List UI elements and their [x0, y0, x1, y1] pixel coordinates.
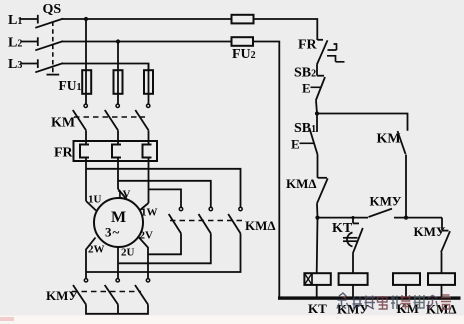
- wire: [317, 155, 319, 178]
- wire: [148, 130, 150, 144]
- pushbutton SB2 (stop, NC): [294, 66, 325, 101]
- node junction A: [315, 216, 319, 220]
- wire FR down C: [148, 158, 150, 204]
- svg-text:KM: KM: [51, 116, 75, 131]
- wire star point: [86, 305, 148, 314]
- wire KT to coil KM-star: [352, 253, 354, 273]
- wire: [117, 305, 119, 314]
- wire phase A down: [85, 19, 87, 104]
- svg-text:1U: 1U: [88, 194, 102, 206]
- svg-text:2W: 2W: [88, 244, 105, 256]
- svg-text:KM: KM: [377, 132, 401, 147]
- svg-text:L2: L2: [8, 36, 22, 51]
- svg-text:L3: L3: [8, 57, 22, 72]
- wire 2V to KM-delta contact 1 bottom: [148, 233, 181, 254]
- wire: [21, 18, 38, 20]
- svg-text:SB2: SB2: [294, 66, 316, 81]
- motor M: [94, 198, 143, 247]
- contactor KM-star contacts: [46, 279, 150, 305]
- motor terminal 2W lead: [86, 238, 96, 279]
- wire L1 to FU2: [62, 18, 232, 20]
- svg-text:FR: FR: [298, 38, 318, 53]
- fuse FU2 upper: [232, 15, 254, 24]
- svg-text:KMΔ: KMΔ: [286, 176, 317, 191]
- svg-text:KT: KT: [308, 301, 327, 316]
- svg-text:E: E: [302, 81, 311, 96]
- wire coil bottoms to rail: [316, 285, 318, 297]
- fuse FU1 pole B: [114, 70, 123, 94]
- svg-text:KMΔ: KMΔ: [245, 218, 276, 233]
- wire bottom rail: [278, 296, 461, 299]
- wire FR down A: [85, 158, 87, 202]
- fuse FU2 lower: [232, 37, 254, 46]
- wire: [316, 114, 318, 133]
- wire: [441, 252, 443, 273]
- disconnect switch QS: [35, 2, 63, 75]
- svg-text:KMΔ: KMΔ: [426, 302, 457, 317]
- wire: [117, 130, 119, 144]
- svg-text:E: E: [291, 137, 300, 152]
- motor terminal 2V lead: [139, 237, 149, 278]
- coil KM-delta: [428, 273, 455, 285]
- wire: [441, 285, 443, 297]
- pushbutton SB1 (start, NO): [291, 121, 318, 155]
- wire row: [318, 217, 369, 219]
- node junction L1/FU1: [84, 17, 88, 21]
- contact KM (NO self-hold): [377, 131, 406, 154]
- wire 1W to KM-delta contact 1: [149, 189, 182, 207]
- svg-text:1W: 1W: [141, 207, 158, 219]
- contact KM-star (NO, horizontal): [369, 194, 402, 218]
- motor terminal 2U lead: [117, 247, 119, 278]
- wire row: [394, 217, 442, 219]
- svg-text:3~: 3~: [105, 225, 120, 240]
- watermark logo: [337, 293, 349, 309]
- fuse FU1 pole A: [82, 70, 91, 94]
- svg-text:L1: L1: [8, 13, 22, 28]
- node junction B: [404, 216, 408, 220]
- wire L1 fuse to control rail: [254, 19, 318, 40]
- coil KM: [393, 273, 420, 285]
- node junction L2/FU1: [116, 39, 120, 43]
- svg-text:FU2: FU2: [232, 47, 256, 62]
- coil KT: [304, 273, 330, 285]
- motor terminal 1W lead: [140, 203, 149, 211]
- fuse FU1 pole C: [144, 70, 153, 94]
- wire: [316, 65, 318, 76]
- svg-text:1V: 1V: [117, 189, 131, 201]
- svg-text:KMУ: KMУ: [370, 194, 402, 209]
- thermal relay FR: [54, 141, 157, 161]
- svg-text:FR: FR: [54, 146, 74, 161]
- svg-text:SB1: SB1: [294, 121, 316, 136]
- watermark text: [353, 295, 452, 310]
- contact KM-star (NC interlock): [414, 218, 451, 253]
- wire phase B down: [117, 42, 119, 105]
- wire L2 to FU2: [62, 41, 232, 43]
- wire: [21, 63, 38, 65]
- time relay contact KT (delayed): [332, 216, 363, 253]
- contact KM-delta (NC interlock): [286, 176, 328, 204]
- contactor KM main contacts: [51, 104, 150, 130]
- contactor KM-delta contacts: [169, 207, 276, 233]
- svg-text:QS: QS: [43, 2, 62, 17]
- wire FR down B: [117, 158, 119, 190]
- wire 2U to KM-delta contact 2 bottom: [118, 233, 211, 263]
- svg-text:2U: 2U: [121, 247, 135, 259]
- wire: [352, 285, 354, 297]
- wire: [316, 101, 317, 114]
- wire: [21, 41, 38, 43]
- wire KM to FR: [85, 130, 87, 144]
- wire: [405, 285, 407, 297]
- wire KT coil feed: [316, 218, 319, 274]
- wire 1U to KM-delta contact 3: [86, 169, 241, 208]
- wire 1V to KM-delta contact 2: [118, 181, 211, 208]
- motor terminal 1U lead: [86, 201, 96, 211]
- wire to KM branch: [317, 114, 408, 131]
- wire: [405, 155, 407, 218]
- wire L2 fuse to left rail: [253, 42, 279, 298]
- wire phase C down: [148, 64, 150, 105]
- motor terminal 1V lead: [118, 189, 127, 199]
- thermal contact FR (NC): [298, 38, 345, 65]
- coil KM-star: [339, 273, 368, 285]
- svg-text:KMУ: KMУ: [46, 288, 78, 303]
- svg-text:KMУ: KMУ: [414, 224, 446, 239]
- wire: [316, 204, 319, 218]
- wire 2W to KM-delta contact 3 bottom: [86, 233, 241, 272]
- node junction SB2: [315, 111, 319, 115]
- wire L3 down to FU1: [62, 64, 149, 71]
- svg-text:M: M: [111, 209, 126, 226]
- bottom white strip: [0, 316, 464, 324]
